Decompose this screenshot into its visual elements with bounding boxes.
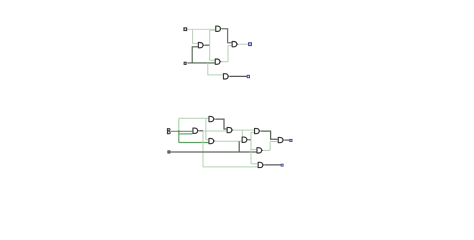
wire G9 output to output pin 2 [264,164,281,166]
wire G6 out to G9 top input [251,163,258,165]
wire U2 out vertical to U1 and U4 [210,30,216,60]
output pin Y2 [281,164,284,167]
output pin C [247,75,250,78]
wire B (input B to gate U4) [187,62,214,64]
wire to G1 bottom input [179,133,193,135]
wire branch down to G4 top input [206,118,209,139]
wire U1 output to U3 top input [222,29,232,43]
wire G2 output to G3 top input [215,119,226,129]
wire to G9 bottom input [203,166,258,168]
wire vertical branch at x=178.8 lower [178,131,180,142]
wire to G4 bottom input [179,142,209,144]
gate G1 [193,128,199,133]
gate U3 [232,42,238,47]
wire U2 output stub [205,44,210,46]
wire G7 output to output pin [285,139,290,141]
wire junction vertical to input D long wire [238,141,240,152]
wire G6 out to G5 bottom input [251,131,254,133]
wire G1 output stub [199,130,203,132]
wire G3 output to G5 top input [233,129,254,131]
wire G1 out vertical down [202,131,204,167]
wire G4 output to G6 bottom input [215,140,241,142]
gate G8 [257,148,263,153]
wire A (input A to gate U1) [187,28,215,30]
gate G2 [209,116,215,121]
wire G5 output to G7 top input [261,131,278,139]
wire G6 out to G8 top input [251,148,256,150]
wire branch down to G6 top input [241,130,243,138]
gate G3 [227,127,233,132]
wire vertical branch at x=178.8 upper (light) [178,118,180,131]
input pin A [183,27,187,31]
gate G7 [278,137,284,142]
output pin S [248,42,252,46]
wire B branch up to U2 bottom input [192,47,198,63]
gate U5 [223,74,229,79]
gate G5 [255,128,261,133]
gate G4 [209,138,215,143]
junction B wire [178,131,180,133]
gate G9 [258,162,264,167]
wire G8 output to G7 bottom input [263,142,278,151]
output pin Y1 [289,139,292,142]
wire A branch down to U2 top input [193,29,198,43]
wire U3 output to output pin [238,43,248,45]
gate U1 [216,26,222,31]
gate U2 [198,43,204,48]
wire to G2 input [179,117,209,119]
wire G6 out vertical [250,132,252,163]
wire G6 output stub [248,139,251,141]
input pin D [167,150,170,153]
wire U4 output up to U3 bottom input [222,46,232,62]
gate U4 [215,59,221,64]
input pin B [184,62,187,65]
wire U5 output to output pin 2 [230,75,248,77]
wire input D long wire to G8 bottom input [171,151,257,153]
wire G1 out to G3 bottom input [203,130,227,132]
gate G6 [242,137,248,142]
label B [167,128,171,134]
wire B branch down to U5 input [208,63,223,75]
wire input B to gate G1 [171,130,193,132]
